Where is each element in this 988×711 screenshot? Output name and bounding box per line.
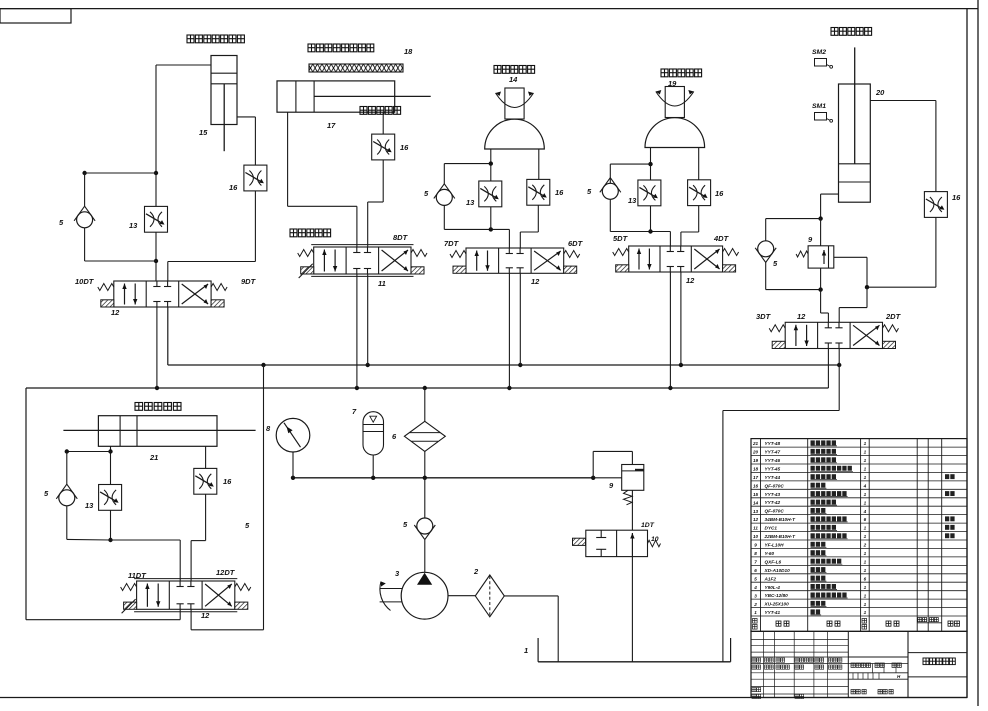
pressure gauge 8 <box>276 418 310 452</box>
filter/cooler 6 <box>404 421 445 451</box>
sensor 18: inductive displacement sensor bar <box>309 64 403 72</box>
svg-text:16: 16 <box>753 484 759 489</box>
cylinder 20: vertical lift <box>839 84 871 202</box>
T drop to tank <box>838 349 840 411</box>
svg-text:1: 1 <box>864 610 867 615</box>
tank 1 <box>538 661 731 663</box>
pressure line P <box>26 387 828 389</box>
label: 横移液压缸 <box>135 403 181 411</box>
svg-text:YYT-48: YYT-48 <box>765 441 781 446</box>
svg-text:1: 1 <box>864 534 867 539</box>
svg-text:13: 13 <box>466 198 475 207</box>
svg-text:14: 14 <box>753 500 759 505</box>
cylinder 15: plunger cylinder (executor gripper) <box>211 56 237 125</box>
throttle 16 <box>688 180 711 206</box>
svg-text:YYT-44: YYT-44 <box>765 475 781 480</box>
svg-text:1: 1 <box>864 500 867 505</box>
svg-text:QXF-L6: QXF-L6 <box>765 559 782 564</box>
svg-text:19: 19 <box>753 458 759 463</box>
rotary cylinder 14 <box>485 119 545 149</box>
svg-text:13: 13 <box>628 196 637 205</box>
svg-text:6DT: 6DT <box>568 239 584 248</box>
svg-text:5DT: 5DT <box>613 234 629 243</box>
svg-text:17: 17 <box>753 475 759 480</box>
valve 12 (11DT/12DT) proportional <box>137 581 235 609</box>
svg-text:7: 7 <box>754 560 757 565</box>
svg-text:8DT: 8DT <box>393 233 409 242</box>
check valve 5 <box>77 212 93 228</box>
svg-text:17: 17 <box>327 121 336 130</box>
svg-text:14: 14 <box>509 75 518 84</box>
throttle 16 <box>194 468 217 494</box>
valve 12 (3DT/2DT) <box>785 322 882 348</box>
title: 液压系统图 <box>923 658 955 665</box>
check bypass branch <box>766 218 821 220</box>
svg-text:21: 21 <box>149 453 158 462</box>
svg-text:16: 16 <box>229 183 238 192</box>
suction filter 2 <box>448 595 475 597</box>
svg-text:1: 1 <box>864 560 867 565</box>
svg-text:34BM-B10H-T: 34BM-B10H-T <box>765 517 797 522</box>
wire A3 <box>444 163 491 165</box>
svg-text:A1F2: A1F2 <box>764 576 777 581</box>
svg-text:6: 6 <box>754 568 757 573</box>
svg-text:Y90L-4: Y90L-4 <box>765 585 781 590</box>
BOM table <box>751 439 967 632</box>
label: 水平伸缩缸 <box>360 107 401 115</box>
svg-text:YBC-12/80: YBC-12/80 <box>765 593 789 598</box>
svg-text:QF-070C: QF-070C <box>765 509 785 514</box>
svg-text:YYT-42: YYT-42 <box>765 500 781 505</box>
svg-text:15: 15 <box>753 492 759 497</box>
svg-text:1: 1 <box>864 551 867 556</box>
drawing frame border <box>0 8 978 10</box>
wire left port <box>821 193 839 195</box>
svg-text:10: 10 <box>753 534 759 539</box>
svg-text:1: 1 <box>864 492 867 497</box>
throttle 16 <box>527 179 550 205</box>
svg-text:4: 4 <box>863 484 867 489</box>
svg-text:13: 13 <box>129 221 138 230</box>
svg-text:16: 16 <box>715 189 724 198</box>
svg-text:10: 10 <box>651 536 659 543</box>
svg-text:11: 11 <box>378 279 386 288</box>
svg-text:12: 12 <box>111 308 120 317</box>
throttle 16 <box>244 165 267 191</box>
relief valve 9 <box>592 451 594 477</box>
svg-text:16: 16 <box>555 188 564 197</box>
svg-text:11DT: 11DT <box>128 571 147 580</box>
svg-text:4: 4 <box>863 509 867 514</box>
wire to valve <box>111 539 181 541</box>
svg-text:13: 13 <box>753 509 759 514</box>
svg-text:18: 18 <box>404 47 413 56</box>
svg-text:4DT: 4DT <box>713 234 730 243</box>
throttle 16 <box>924 192 947 218</box>
P end rise <box>827 349 829 389</box>
svg-text:12: 12 <box>686 276 695 285</box>
throttle 13 <box>638 180 661 206</box>
label: 齿条液压缸 <box>661 69 702 77</box>
svg-text:12: 12 <box>753 517 759 522</box>
throttle 13 <box>99 485 122 511</box>
svg-text:1: 1 <box>754 610 757 615</box>
P port drop <box>179 609 181 619</box>
svg-text:11: 11 <box>753 526 758 531</box>
svg-text:20: 20 <box>875 88 885 97</box>
check valve 5 <box>758 241 774 257</box>
svg-text:YYT-43: YYT-43 <box>765 492 781 497</box>
svg-text:18: 18 <box>753 467 759 472</box>
svg-text:1: 1 <box>864 467 867 472</box>
sequence valve 9 <box>808 246 834 268</box>
svg-text:SM1: SM1 <box>812 103 826 110</box>
svg-text:SM2: SM2 <box>812 49 826 56</box>
svg-text:12: 12 <box>201 611 210 620</box>
svg-text:6: 6 <box>864 576 867 581</box>
svg-text:19: 19 <box>668 79 677 88</box>
throttle 13 <box>479 181 502 207</box>
svg-text:2: 2 <box>473 567 479 576</box>
svg-text:1: 1 <box>864 526 867 531</box>
unloading valve 10 (1DT) 2/2 <box>586 530 648 556</box>
svg-text:22BM-B10H-T: 22BM-B10H-T <box>764 534 797 539</box>
svg-text:4: 4 <box>753 585 757 590</box>
svg-text:YF-L10H: YF-L10H <box>765 543 785 548</box>
svg-text:16: 16 <box>952 193 961 202</box>
valve 12 (10DT/9DT) 4/3 solenoid valve <box>114 281 211 307</box>
svg-text:YYT-45: YYT-45 <box>765 467 781 472</box>
valve 12 (7DT/6DT) <box>466 248 564 273</box>
label: 电液伺服阀 <box>290 229 331 237</box>
svg-text:7DT: 7DT <box>444 239 460 248</box>
cylinder 17: horizontal telescopic <box>277 81 395 112</box>
check valve 5 <box>602 183 618 199</box>
svg-text:1: 1 <box>864 475 867 480</box>
svg-text:2DT: 2DT <box>885 312 902 321</box>
svg-text:XD-A10D10: XD-A10D10 <box>764 568 791 573</box>
svg-text:1: 1 <box>864 593 867 598</box>
svg-text:21: 21 <box>752 441 759 446</box>
svg-text:9DT: 9DT <box>241 277 257 286</box>
cylinder 21: transverse (double rod) <box>98 416 217 447</box>
wire A2 <box>287 112 289 206</box>
tank return line T <box>168 364 839 366</box>
svg-text:QF-070C: QF-070C <box>765 483 785 488</box>
svg-text:5: 5 <box>754 576 757 581</box>
pump 3 <box>401 572 448 619</box>
svg-text:12DT: 12DT <box>216 568 236 577</box>
svg-text:2: 2 <box>863 543 867 548</box>
svg-text:13: 13 <box>85 501 94 510</box>
P/T drops servo <box>356 274 358 388</box>
wire A4 <box>610 163 650 165</box>
check valve 5 <box>436 189 452 205</box>
svg-text:16: 16 <box>223 477 232 486</box>
title block <box>751 631 967 697</box>
wire right port to throttle 16 <box>870 100 936 102</box>
label: 回转液压缸 <box>494 66 535 74</box>
accumulator 7 <box>363 412 384 455</box>
svg-text:20: 20 <box>752 450 759 455</box>
svg-text:YYT-47: YYT-47 <box>765 450 781 455</box>
throttle 16 <box>372 134 395 160</box>
side line from valve 9 <box>834 256 867 258</box>
sensor SM2 <box>815 59 827 67</box>
wire B6 <box>205 446 207 468</box>
svg-text:12: 12 <box>531 277 540 286</box>
T return riser <box>190 609 192 630</box>
svg-text:6: 6 <box>864 517 867 522</box>
BOM header <box>753 619 758 624</box>
sensor SM1 <box>815 113 827 121</box>
check valve 5 <box>59 490 75 506</box>
svg-text:10DT: 10DT <box>75 277 95 286</box>
svg-text:1: 1 <box>864 585 867 590</box>
svg-text:8: 8 <box>754 551 757 556</box>
label: 垂直升降缸 <box>831 28 872 36</box>
svg-text:YYT-46: YYT-46 <box>765 458 781 463</box>
svg-text:2: 2 <box>753 602 757 607</box>
gauge-accumulator manifold line <box>293 477 593 479</box>
wire B1 <box>167 262 169 282</box>
svg-text:9: 9 <box>754 543 757 548</box>
label: 执行手爪柱塞缸 <box>187 35 244 43</box>
svg-text:1: 1 <box>864 602 867 607</box>
svg-text:3DT: 3DT <box>756 312 772 321</box>
check branch <box>67 451 111 453</box>
wire check branch <box>85 172 156 174</box>
wire B2 <box>382 112 384 134</box>
svg-text:1: 1 <box>864 458 867 463</box>
P/T drops valve1 <box>156 307 158 388</box>
svg-text:1: 1 <box>864 450 867 455</box>
wire A6 <box>110 446 112 484</box>
svg-text:XU-25X100: XU-25X100 <box>764 602 790 607</box>
svg-text:Y-60: Y-60 <box>765 551 775 556</box>
svg-text:1: 1 <box>864 568 867 573</box>
svg-text:YYT-41: YYT-41 <box>765 610 781 615</box>
svg-text:1: 1 <box>864 441 867 446</box>
rack cylinder 19 <box>645 118 705 148</box>
wire A1 <box>156 64 211 66</box>
svg-text:1DT: 1DT <box>641 522 655 529</box>
svg-text:12: 12 <box>797 312 806 321</box>
check valve 5 above pump <box>424 478 426 518</box>
svg-text:15: 15 <box>199 128 208 137</box>
top-left revision strip <box>0 9 71 23</box>
svg-text:1: 1 <box>524 646 528 655</box>
label: 感应式位移传感器 <box>308 44 374 52</box>
svg-text:3: 3 <box>754 593 757 598</box>
valve 12 (5DT/4DT) <box>629 246 723 272</box>
servo valve 11 (8DT) <box>314 247 411 274</box>
throttle 13 <box>145 206 168 232</box>
svg-text:DYC1: DYC1 <box>765 526 778 531</box>
svg-text:16: 16 <box>400 143 409 152</box>
